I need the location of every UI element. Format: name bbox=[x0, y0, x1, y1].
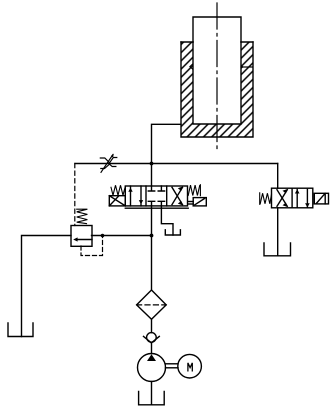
motor M1 bbox=[178, 354, 202, 378]
wire check valve to pump bbox=[151, 343, 153, 354]
wire valve V2 to tank bbox=[277, 208, 279, 256]
cylinder body bbox=[181, 42, 253, 137]
valve V2 right position arrows bbox=[295, 189, 310, 207]
valve V1 right position crossed arrows bbox=[172, 187, 183, 206]
tank T3 (under valve V2) bbox=[264, 243, 291, 256]
wire cylinder port bbox=[152, 124, 182, 163]
node junction A bbox=[150, 162, 154, 166]
wire valve V1 T port bbox=[161, 206, 173, 235]
valve V1 center position blocked ports bbox=[148, 186, 164, 206]
cylinder seal mark left bbox=[190, 64, 193, 70]
tank T4 (under pump) bbox=[139, 392, 165, 405]
check valve bbox=[144, 333, 160, 343]
cylinder centerline bbox=[216, 3, 218, 149]
drive shaft bbox=[166, 364, 179, 368]
wire valve V1 top port bbox=[151, 164, 153, 187]
pilot line dashed vertical to relief spring bbox=[74, 164, 76, 226]
valve V2 body (2/2 solenoid) bbox=[272, 188, 313, 208]
valve V2 solenoid bbox=[314, 193, 328, 204]
wire main horizontal line bbox=[75, 163, 278, 165]
pump P1 bbox=[138, 354, 166, 382]
wire pump to tank bbox=[151, 382, 153, 405]
valve V1 right spring bbox=[188, 185, 200, 196]
valve V2 left position crossed arrows bbox=[277, 189, 288, 207]
cylinder wall hatching bbox=[181, 42, 253, 137]
valve V1 left position arrows bbox=[128, 186, 143, 206]
cylinder piston rod bbox=[193, 17, 241, 42]
wire relief inlet bbox=[92, 235, 152, 237]
tank T1 (left) bbox=[8, 323, 33, 337]
tank T2 (under valve V1) bbox=[165, 230, 180, 235]
node pump line junction bbox=[150, 234, 154, 238]
wire right branch down to valve V2 bbox=[277, 164, 279, 189]
filter F1 bbox=[137, 290, 167, 319]
valve V1 left solenoid bbox=[109, 196, 125, 206]
node pilot junction bbox=[101, 234, 105, 238]
cylinder seal mark right bbox=[241, 65, 253, 70]
relief valve spring bbox=[77, 209, 88, 223]
valve V2 spring bbox=[260, 193, 272, 205]
wire valve V1 P port down bbox=[151, 206, 153, 290]
valve V1 right solenoid bbox=[188, 198, 206, 206]
wire filter to check valve bbox=[151, 319, 153, 332]
relief valve bbox=[71, 226, 92, 247]
valve V1 body (4/3 directional) bbox=[125, 186, 188, 208]
valve V1 left spring bbox=[111, 185, 125, 195]
throttle valve (adjustable) bbox=[100, 154, 117, 173]
relief valve pilot line dashed bbox=[81, 237, 103, 256]
wire relief outlet to tank bbox=[22, 236, 72, 337]
